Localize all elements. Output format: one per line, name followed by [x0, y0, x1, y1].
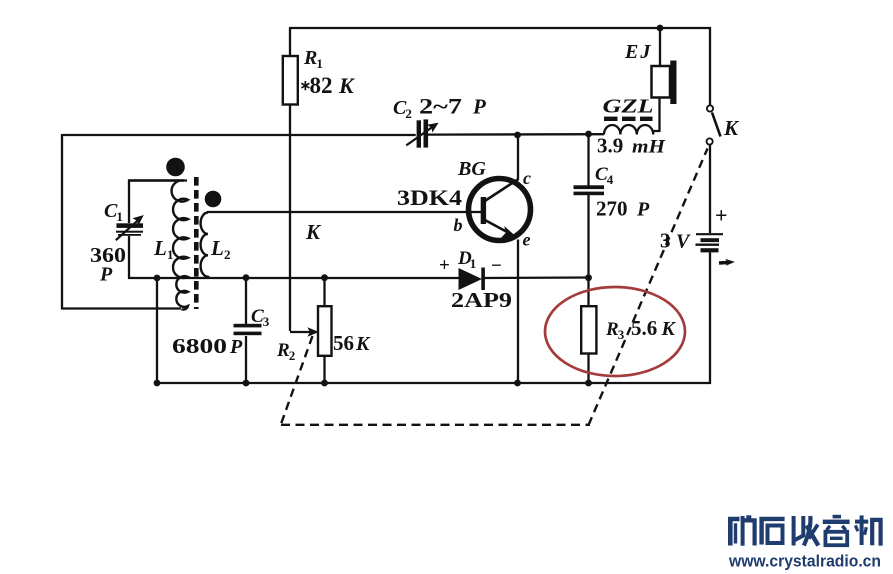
svg-text:1: 1 [116, 209, 123, 224]
svg-text:GZL: GZL [603, 97, 654, 118]
svg-text:+: + [439, 255, 450, 276]
svg-text:L: L [153, 236, 167, 260]
svg-text:270: 270 [596, 197, 628, 221]
svg-text:5.6: 5.6 [631, 316, 657, 340]
svg-text:3DK4: 3DK4 [397, 185, 462, 210]
svg-text:P: P [229, 336, 243, 358]
svg-text:c: c [523, 168, 531, 188]
svg-text:L: L [210, 236, 224, 260]
svg-text:1: 1 [316, 56, 323, 71]
svg-text:−: − [491, 256, 502, 277]
svg-text:2AP9: 2AP9 [451, 288, 512, 312]
svg-text:3: 3 [263, 314, 270, 329]
svg-text:mH: mH [632, 137, 666, 158]
svg-text:K: K [338, 73, 355, 98]
svg-text:2~7: 2~7 [419, 94, 462, 119]
svg-text:P: P [99, 264, 113, 286]
svg-text:2: 2 [289, 348, 296, 363]
svg-text:e: e [523, 230, 531, 250]
svg-text:www.crystalradio.cn: www.crystalradio.cn [728, 553, 881, 571]
svg-text:P: P [472, 95, 486, 119]
svg-text:3.9: 3.9 [597, 134, 623, 158]
svg-text:K: K [723, 116, 740, 140]
svg-text:+: + [715, 203, 728, 228]
svg-text:R: R [303, 47, 317, 69]
svg-text:56: 56 [333, 331, 354, 355]
svg-text:82: 82 [310, 73, 333, 98]
svg-text:R: R [605, 319, 619, 340]
svg-text:BG: BG [457, 158, 486, 180]
svg-text:b: b [454, 215, 463, 235]
svg-text:K: K [305, 220, 322, 244]
svg-text:V: V [676, 231, 691, 253]
svg-text:P: P [636, 199, 650, 221]
svg-text:4: 4 [607, 172, 614, 187]
svg-text:3: 3 [618, 327, 625, 342]
svg-text:6800: 6800 [172, 334, 227, 358]
svg-text:K: K [355, 333, 371, 355]
svg-text:1: 1 [470, 256, 477, 271]
svg-text:2: 2 [405, 106, 412, 121]
svg-text:EJ: EJ [624, 41, 652, 63]
svg-text:K: K [661, 318, 677, 340]
svg-text:R: R [276, 340, 290, 361]
svg-text:1: 1 [167, 247, 174, 262]
svg-text:3: 3 [660, 229, 671, 253]
svg-text:2: 2 [224, 247, 231, 262]
